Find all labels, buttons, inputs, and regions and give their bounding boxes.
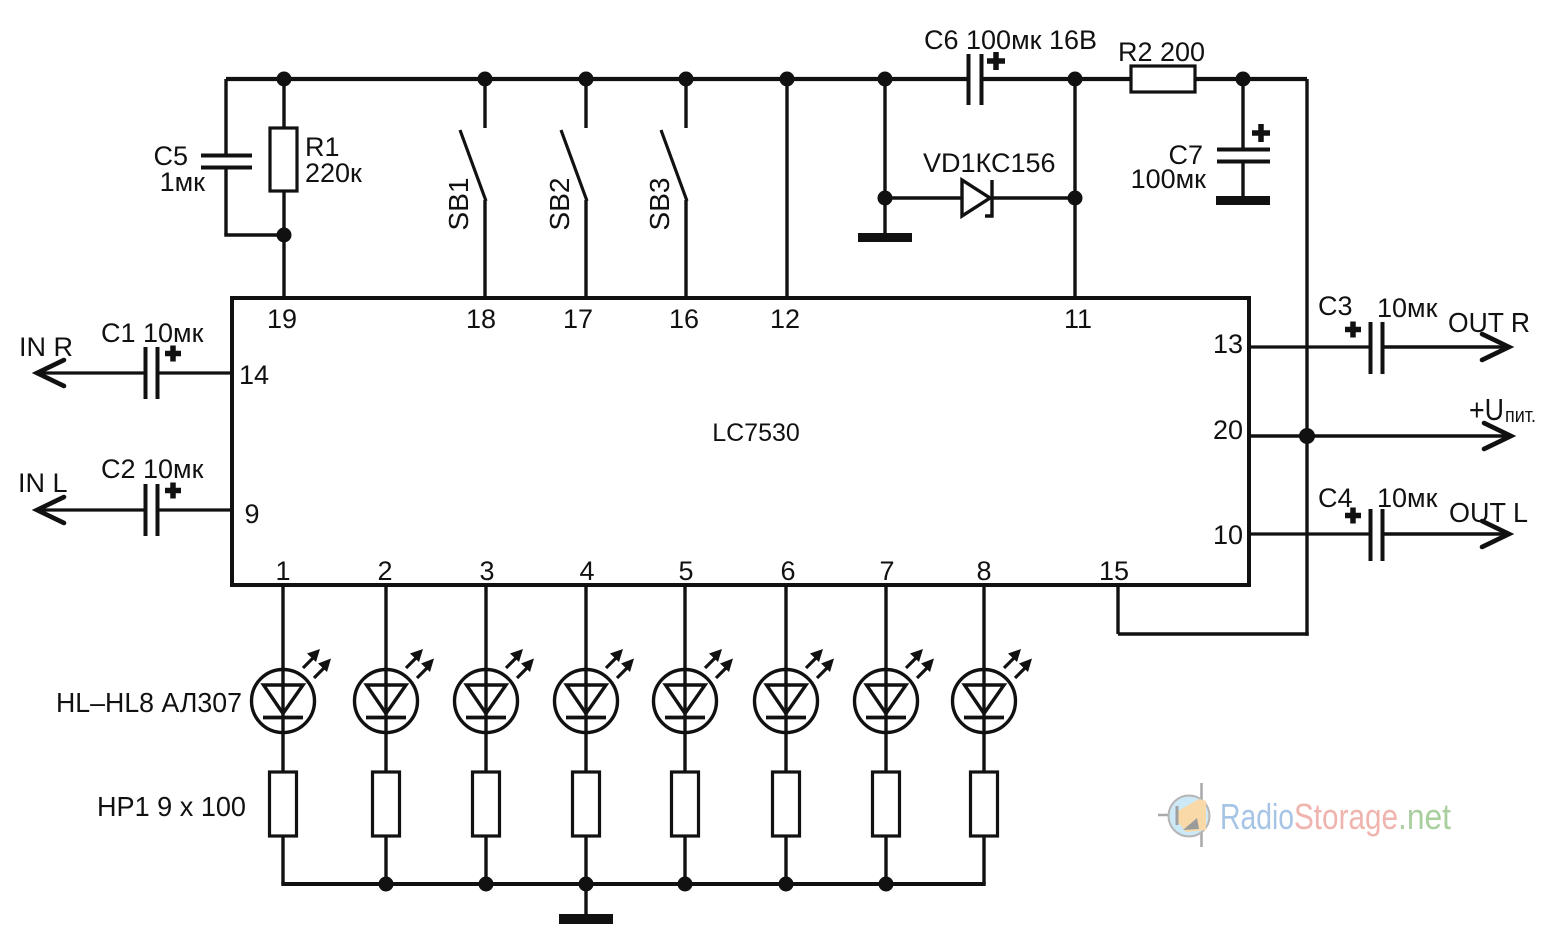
svg-text:220к: 220к bbox=[305, 158, 362, 188]
resistor R2 200 bbox=[1131, 66, 1195, 92]
capacitor C7 100мк bbox=[1241, 79, 1244, 150]
svg-text:9: 9 bbox=[244, 499, 259, 529]
wire to pin 11 bbox=[1073, 79, 1076, 298]
svg-text:17: 17 bbox=[563, 304, 593, 334]
svg-text:IN L: IN L bbox=[18, 468, 68, 498]
svg-text:IN R: IN R bbox=[19, 332, 73, 362]
capacitor C2 10мк bbox=[144, 484, 148, 536]
wire to pin 12 bbox=[785, 79, 788, 298]
LED HL1 АЛ307 bbox=[281, 585, 284, 772]
svg-text:C1 10мк: C1 10мк bbox=[101, 318, 204, 348]
op-amp U1 LC7530 IC body bbox=[232, 298, 1249, 585]
wire bottom common rail bbox=[281, 882, 985, 886]
svg-text:R2 200: R2 200 bbox=[1118, 37, 1205, 67]
svg-text:SB2: SB2 bbox=[544, 178, 575, 231]
svg-text:SB3: SB3 bbox=[644, 178, 675, 231]
wire top supply rail bbox=[226, 77, 968, 81]
ground under diode node bbox=[858, 233, 912, 242]
switch SB1 bbox=[483, 79, 486, 128]
svg-text:+U: +U bbox=[1469, 392, 1504, 427]
svg-text:OUT L: OUT L bbox=[1449, 497, 1528, 528]
svg-text:C3: C3 bbox=[1318, 291, 1353, 321]
resistor R HL3 bbox=[473, 772, 500, 836]
svg-text:18: 18 bbox=[466, 304, 496, 334]
capacitor C5 bbox=[224, 79, 227, 155]
resistor R1 220к bbox=[282, 79, 285, 128]
resistor R HL4 bbox=[573, 772, 600, 836]
svg-text:20: 20 bbox=[1213, 415, 1243, 445]
svg-text:C4: C4 bbox=[1318, 483, 1353, 513]
svg-text:2: 2 bbox=[377, 556, 392, 586]
svg-text:10мк: 10мк bbox=[1377, 293, 1438, 323]
svg-text:10: 10 bbox=[1213, 520, 1243, 550]
switch SB2 bbox=[584, 79, 587, 128]
LED HL8 АЛ307 bbox=[982, 585, 985, 772]
svg-text:1мк: 1мк bbox=[160, 167, 206, 197]
ground under C7 bbox=[1216, 196, 1270, 205]
resistor R HL1 bbox=[270, 772, 297, 836]
svg-text:1: 1 bbox=[275, 556, 290, 586]
input IN L arrow bbox=[37, 508, 146, 511]
svg-text:пит.: пит. bbox=[1505, 405, 1536, 427]
svg-text:VD1КС156: VD1КС156 bbox=[923, 148, 1056, 178]
node junction dots on top rail bbox=[277, 72, 292, 87]
RadioStorage.net logo bbox=[1158, 783, 1210, 847]
svg-text:6: 6 bbox=[780, 556, 795, 586]
input IN R arrow bbox=[37, 371, 146, 374]
node junction pin 20 / +U rail bbox=[1299, 428, 1315, 444]
svg-text:.net: .net bbox=[1398, 796, 1451, 837]
node diode anode junction bbox=[878, 191, 893, 206]
node junction dots bottom rail bbox=[379, 877, 394, 892]
svg-text:OUT R: OUT R bbox=[1448, 307, 1530, 338]
capacitor C6 100мк 16В bbox=[967, 54, 971, 105]
svg-text:C2 10мк: C2 10мк bbox=[101, 454, 204, 484]
svg-text:HL–HL8 АЛ307: HL–HL8 АЛ307 bbox=[56, 687, 242, 718]
resistor R HL5 bbox=[672, 772, 699, 836]
svg-text:4: 4 bbox=[579, 556, 594, 586]
LED HL4 АЛ307 bbox=[584, 585, 587, 772]
LED HL6 АЛ307 bbox=[784, 585, 787, 772]
resistor R HL7 bbox=[873, 772, 900, 836]
svg-text:11: 11 bbox=[1064, 304, 1092, 334]
svg-text:14: 14 bbox=[239, 360, 269, 390]
resistor R HL8 bbox=[971, 772, 998, 836]
svg-text:5: 5 bbox=[678, 556, 693, 586]
capacitor C4 10мк / OUT L bbox=[1249, 532, 1370, 535]
resistor R HL6 bbox=[773, 772, 800, 836]
node diode cathode junction bbox=[1068, 191, 1083, 206]
svg-text:15: 15 bbox=[1099, 556, 1129, 586]
zener diode VD1 КС156 bbox=[885, 196, 962, 199]
wire +U supply vertical bbox=[1305, 79, 1308, 636]
ground bottom bbox=[584, 884, 587, 914]
node junction C5/R1 to pin 19 bbox=[277, 228, 292, 243]
capacitor C1 10мк bbox=[144, 347, 148, 399]
svg-text:19: 19 bbox=[267, 304, 297, 334]
svg-text:SB1: SB1 bbox=[443, 178, 474, 231]
LED HL2 АЛ307 bbox=[384, 585, 387, 772]
LED HL7 АЛ307 bbox=[884, 585, 887, 772]
svg-text:Storage: Storage bbox=[1294, 796, 1398, 837]
svg-text:10мк: 10мк bbox=[1377, 483, 1438, 513]
svg-text:13: 13 bbox=[1213, 329, 1243, 359]
LED HL3 АЛ307 bbox=[484, 585, 487, 772]
resistor R HL2 bbox=[373, 772, 400, 836]
svg-text:C6 100мк 16В: C6 100мк 16В bbox=[924, 25, 1097, 55]
capacitor C3 10мк / OUT R bbox=[1249, 345, 1370, 348]
svg-text:12: 12 bbox=[770, 304, 800, 334]
svg-text:НР1 9 х 100: НР1 9 х 100 bbox=[97, 791, 246, 822]
wire to pin 19 bbox=[282, 235, 285, 298]
+U power output arrow pin 20 bbox=[1249, 434, 1508, 437]
svg-text:Radio: Radio bbox=[1220, 796, 1294, 837]
wire C5 bottom connector bbox=[224, 233, 284, 236]
wire pin 15 to supply bbox=[1116, 585, 1119, 634]
LED HL5 АЛ307 bbox=[683, 585, 686, 772]
svg-text:7: 7 bbox=[879, 556, 894, 586]
svg-text:8: 8 bbox=[976, 556, 991, 586]
wire rail to diode node bbox=[883, 79, 886, 233]
svg-text:LC7530: LC7530 bbox=[712, 419, 800, 447]
svg-text:100мк: 100мк bbox=[1131, 164, 1207, 194]
svg-text:16: 16 bbox=[669, 304, 699, 334]
switch SB3 bbox=[684, 79, 687, 128]
svg-text:3: 3 bbox=[479, 556, 494, 586]
